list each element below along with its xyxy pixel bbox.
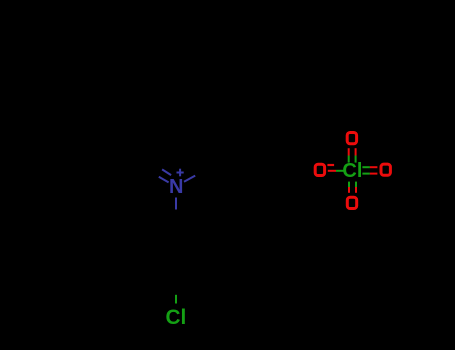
svg-text:Cl: Cl (342, 160, 362, 182)
atom Cl1 (aryl chloride, green) (165, 306, 186, 329)
atom O4 (perchlorate bottom oxygen, red) (347, 197, 356, 208)
bond C-Cl (green half above Cl label) (175, 295, 177, 304)
bond Cl2=O4 double, line 1 (red half near O4) (348, 187, 350, 193)
bond Cl2=O1 double, line 1 (green half near Cl2) (348, 156, 350, 163)
charge minus on O2 (327, 164, 334, 166)
bond Cl2=O4 double, line 2 (green half near Cl2) (355, 182, 357, 187)
svg-text:Cl: Cl (165, 306, 186, 329)
bond Cl2=O3 double, line 2 (green half near Cl2) (362, 173, 370, 175)
bond Cl2=O3 double, line 1 (green half near Cl2) (362, 166, 370, 168)
bond O2-Cl2 single (red half near O2) (328, 170, 336, 172)
atom Cl2 (perchlorate central chlorine, green) (342, 160, 362, 182)
atom O1 (perchlorate top oxygen, red) (347, 133, 356, 144)
bond N1-C single (upper-right of N, blue half) (184, 176, 195, 182)
bond Cl2=O4 double, line 1 (green half near Cl2) (348, 182, 350, 187)
atom O3 (perchlorate right oxygen, red) (381, 164, 390, 175)
bond Cl2=O4 double, line 2 (red half near O4) (355, 187, 357, 193)
bond Cl2=O3 double, line 1 (red half near O3) (370, 166, 378, 168)
bond C=N1 double (upper-left of N, blue half), line 2 (159, 177, 169, 183)
charge plus on N1 (177, 169, 184, 177)
atom O2 (perchlorate left oxygen, red) (315, 164, 324, 175)
bond O2-Cl2 single (green half near Cl2) (336, 170, 344, 172)
atom N1 (quaternary ring nitrogen, blue) (169, 176, 183, 198)
bond N1-C single (down to aryl ring, blue half) (175, 198, 177, 210)
bond Cl2=O3 double, line 2 (red half near O3) (370, 173, 378, 175)
bond Cl2=O1 double, line 2 (green half near Cl2) (355, 156, 357, 163)
bond C=N1 double (upper-left of N, blue half), line 1 (162, 169, 171, 175)
bond Cl2=O1 double, line 1 (red half near O1) (348, 148, 350, 155)
svg-text:N: N (169, 176, 183, 198)
bond Cl2=O1 double, line 2 (red half near O1) (355, 148, 357, 155)
